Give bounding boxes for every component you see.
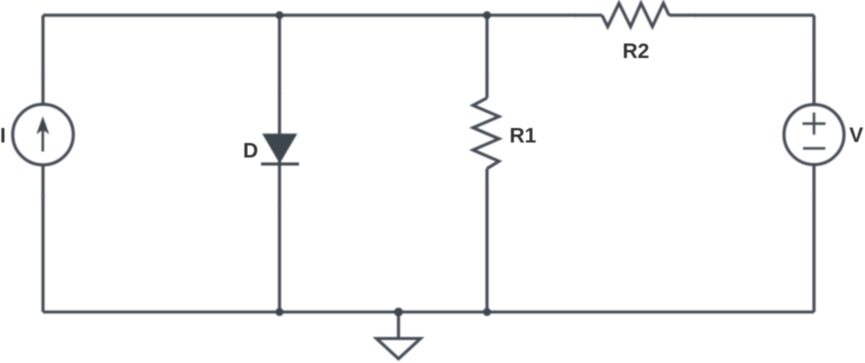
svg-text:R2: R2 <box>623 40 650 63</box>
svg-text:D: D <box>243 140 258 163</box>
svg-text:V: V <box>849 124 863 147</box>
svg-text:I: I <box>0 125 6 148</box>
svg-text:R1: R1 <box>510 124 537 147</box>
